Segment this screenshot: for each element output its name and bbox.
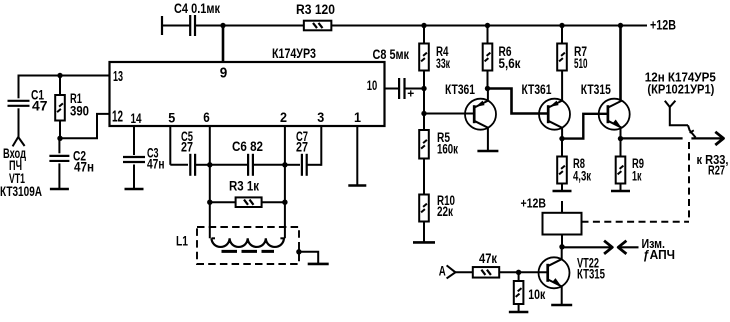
svg-text:47н: 47н bbox=[74, 160, 94, 175]
svg-text:(КР1021УР1): (КР1021УР1) bbox=[647, 83, 714, 97]
svg-text:ƒАПЧ: ƒАПЧ bbox=[643, 247, 675, 262]
svg-text:КТ315: КТ315 bbox=[581, 82, 611, 97]
svg-text:R27: R27 bbox=[708, 162, 725, 177]
svg-text:47: 47 bbox=[32, 99, 48, 114]
svg-text:С8 5мк: С8 5мк bbox=[373, 47, 410, 62]
svg-text:2: 2 bbox=[280, 109, 287, 125]
svg-text:КТ315: КТ315 bbox=[577, 266, 605, 281]
svg-text:27: 27 bbox=[181, 140, 193, 155]
svg-text:14: 14 bbox=[131, 110, 142, 126]
svg-text:К174УР3: К174УР3 bbox=[272, 45, 316, 61]
svg-text:КТ3109А: КТ3109А bbox=[0, 184, 42, 199]
svg-text:9: 9 bbox=[220, 65, 228, 82]
svg-text:160к: 160к bbox=[437, 141, 458, 156]
svg-text:22к: 22к bbox=[437, 204, 453, 219]
svg-text:А: А bbox=[439, 264, 446, 279]
svg-text:С6 82: С6 82 bbox=[232, 139, 263, 154]
svg-text:КТ361: КТ361 bbox=[522, 82, 552, 97]
svg-text:КТ361: КТ361 bbox=[445, 82, 475, 97]
svg-text:С4 0.1мк: С4 0.1мк bbox=[174, 1, 220, 16]
svg-text:1: 1 bbox=[354, 109, 361, 125]
svg-text:6: 6 bbox=[203, 109, 210, 125]
svg-text:47н: 47н bbox=[147, 157, 165, 172]
svg-text:R3 1к: R3 1к bbox=[229, 179, 259, 194]
svg-text:L1: L1 bbox=[176, 234, 188, 249]
svg-text:33к: 33к bbox=[436, 56, 450, 71]
svg-text:12: 12 bbox=[112, 109, 123, 126]
svg-text:10к: 10к bbox=[528, 287, 545, 302]
svg-text:1к: 1к bbox=[632, 169, 642, 184]
svg-text:5,6к: 5,6к bbox=[499, 56, 521, 71]
svg-text:+12В: +12В bbox=[650, 18, 676, 33]
svg-text:3: 3 bbox=[317, 109, 324, 125]
svg-text:R3 120: R3 120 bbox=[296, 2, 335, 17]
svg-text:+12В: +12В bbox=[521, 196, 547, 211]
svg-text:13: 13 bbox=[113, 68, 123, 85]
svg-text:47к: 47к bbox=[479, 251, 497, 266]
svg-text:5: 5 bbox=[168, 109, 175, 125]
svg-text:10: 10 bbox=[367, 77, 378, 93]
svg-text:390: 390 bbox=[70, 104, 89, 119]
svg-text:510: 510 bbox=[574, 56, 588, 71]
svg-text:27: 27 bbox=[296, 140, 308, 155]
svg-text:4,3к: 4,3к bbox=[573, 169, 591, 184]
